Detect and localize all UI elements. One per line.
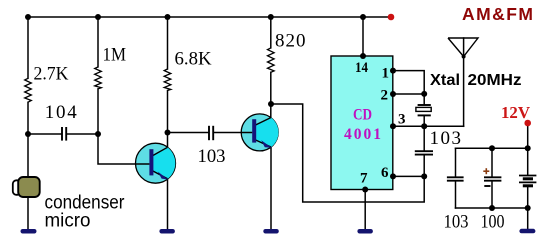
svg-text:7: 7 xyxy=(360,171,368,187)
svg-text:CD: CD xyxy=(353,107,372,124)
svg-text:2: 2 xyxy=(381,88,389,104)
svg-text:12V: 12V xyxy=(501,103,531,122)
svg-text:1M: 1M xyxy=(103,45,127,66)
svg-text:1: 1 xyxy=(382,66,390,82)
svg-text:104: 104 xyxy=(45,102,78,123)
svg-text:6.8K: 6.8K xyxy=(175,49,212,70)
svg-text:103: 103 xyxy=(444,212,469,233)
svg-text:3: 3 xyxy=(398,112,406,128)
svg-text:20MHz: 20MHz xyxy=(468,72,522,89)
svg-text:820: 820 xyxy=(275,31,306,52)
svg-text:AM&FM: AM&FM xyxy=(462,4,533,24)
svg-text:micro: micro xyxy=(45,210,91,232)
svg-text:103: 103 xyxy=(198,146,226,167)
svg-text:14: 14 xyxy=(355,60,368,76)
svg-text:2.7K: 2.7K xyxy=(34,64,69,85)
svg-text:Xtal: Xtal xyxy=(430,72,460,89)
svg-text:6: 6 xyxy=(381,165,389,181)
svg-text:103: 103 xyxy=(430,128,462,149)
svg-text:100: 100 xyxy=(481,212,505,233)
